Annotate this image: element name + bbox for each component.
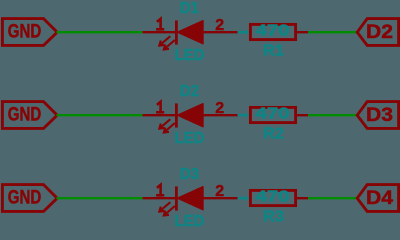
- wire resistor to D3 tag (row 2): [308, 114, 357, 116]
- svg-text:R1: R1: [263, 43, 284, 60]
- svg-text:2: 2: [215, 100, 224, 117]
- wire resistor to D2 tag (row 1): [308, 31, 357, 33]
- svg-text:GND: GND: [8, 21, 42, 43]
- svg-text:D2: D2: [180, 83, 199, 100]
- ERC marker arrow (row 3): [238, 196, 250, 201]
- svg-text:LED: LED: [175, 130, 205, 147]
- svg-text:GND: GND: [8, 104, 42, 126]
- LED D2 (row 2): [143, 100, 238, 133]
- ground tag GND (row 3): [2, 185, 57, 212]
- svg-text:GND: GND: [8, 187, 42, 209]
- svg-text:D1: D1: [180, 0, 199, 17]
- output tag D3 (row 2): [357, 102, 398, 129]
- svg-text:D3: D3: [366, 105, 393, 126]
- output tag D4 (row 3): [357, 185, 398, 212]
- svg-text:D2: D2: [366, 22, 393, 43]
- svg-text:470: 470: [256, 23, 290, 40]
- LED D1 (row 1): [143, 17, 238, 50]
- svg-text:LED: LED: [175, 213, 205, 228]
- svg-text:470: 470: [256, 106, 290, 123]
- wire GND to LED (row 2): [57, 114, 144, 116]
- ERC marker arrow (row 2): [238, 113, 250, 118]
- resistor R2 470 (row 2): [250, 107, 308, 122]
- svg-text:2: 2: [215, 183, 224, 200]
- svg-text:2: 2: [215, 17, 224, 34]
- ERC marker arrow (row 1): [238, 30, 250, 35]
- svg-text:LED: LED: [175, 47, 205, 64]
- svg-text:R3: R3: [263, 209, 284, 226]
- resistor R1 470 (row 1): [250, 24, 308, 39]
- ground tag GND (row 1): [2, 19, 57, 46]
- svg-text:D3: D3: [180, 166, 199, 183]
- wire GND to LED (row 3): [57, 197, 144, 199]
- resistor R3 470 (row 3): [250, 190, 308, 205]
- wire resistor to D4 tag (row 3): [308, 197, 357, 199]
- output tag D2 (row 1): [357, 19, 398, 46]
- svg-text:R2: R2: [263, 126, 284, 143]
- svg-text:D4: D4: [366, 188, 393, 209]
- LED D3 (row 3): [143, 183, 238, 216]
- wire GND to LED (row 1): [57, 31, 144, 33]
- ground tag GND (row 2): [2, 102, 57, 129]
- svg-text:470: 470: [256, 189, 290, 206]
